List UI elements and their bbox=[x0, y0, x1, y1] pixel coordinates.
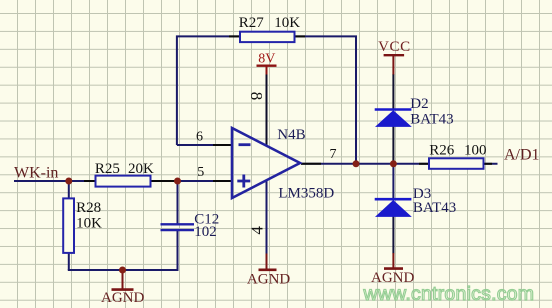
diode D3 cathode bar bbox=[375, 198, 412, 201]
svg-text:8: 8 bbox=[247, 92, 266, 101]
wire feedback loop pin6 to R27 to output bbox=[177, 36, 356, 164]
wire output node to D3 cathode bbox=[392, 164, 394, 198]
pin stub R25 left bbox=[84, 180, 96, 182]
pin stub R25 right bbox=[150, 180, 175, 182]
svg-text:WK-in: WK-in bbox=[14, 165, 58, 182]
power 8V symbol bbox=[257, 66, 277, 75]
ground AGND right symbol (D3) bbox=[384, 253, 403, 269]
wire D2 anode to output node bbox=[392, 127, 394, 165]
pin stub R26 right bbox=[483, 163, 492, 165]
pin 5 stub op-amp bbox=[213, 180, 232, 182]
diode D3 body bbox=[375, 200, 412, 217]
wire C12 branch upper bbox=[177, 181, 179, 225]
svg-text:4: 4 bbox=[247, 226, 266, 235]
svg-text:102: 102 bbox=[194, 224, 217, 240]
svg-text:6: 6 bbox=[196, 129, 203, 144]
power VCC symbol bbox=[384, 55, 405, 74]
svg-text:5: 5 bbox=[197, 165, 204, 180]
pin stub R27 left bbox=[229, 35, 241, 37]
op-amp inverting input minus sign bbox=[239, 143, 251, 146]
junction dot output/diodes bbox=[390, 160, 397, 167]
diode D2 cathode bar bbox=[375, 108, 412, 111]
pin stub R27 right bbox=[294, 35, 305, 37]
svg-text:R25: R25 bbox=[95, 161, 120, 177]
wire input net WK-in to pin 5 bbox=[14, 180, 232, 182]
diode D2 body bbox=[375, 110, 412, 127]
svg-text:VCC: VCC bbox=[378, 39, 411, 55]
svg-text:8V: 8V bbox=[258, 52, 275, 67]
svg-text:A/D1: A/D1 bbox=[504, 147, 540, 164]
svg-text:N4B: N4B bbox=[277, 127, 305, 143]
svg-text:20K: 20K bbox=[128, 161, 154, 177]
op-amp U1 triangle bbox=[232, 128, 300, 198]
svg-text:LM358D: LM358D bbox=[278, 186, 334, 202]
op-amp non-inverting input plus sign bbox=[237, 175, 250, 188]
svg-text:BAT43: BAT43 bbox=[413, 200, 456, 216]
svg-text:D2: D2 bbox=[410, 96, 428, 112]
resistor R25 bbox=[96, 176, 151, 187]
junction dot output/feedback bbox=[353, 160, 360, 167]
resistor R26 bbox=[429, 158, 484, 169]
wire C12 branch lower bbox=[177, 230, 179, 270]
wire bottom AGND run bbox=[68, 269, 179, 271]
svg-text:100: 100 bbox=[464, 143, 487, 159]
wire pin6 horizontal bbox=[177, 144, 232, 146]
pin 4 wire op-amp bottom bbox=[266, 181, 268, 254]
pin 8 wire op-amp top bbox=[266, 74, 268, 146]
svg-text:www.cntronics.com: www.cntronics.com bbox=[363, 283, 535, 305]
wire diode column VCC to D2 bbox=[392, 74, 394, 109]
pin 6 stub op-amp bbox=[213, 144, 232, 146]
wire D3 anode to AGND bbox=[392, 217, 394, 254]
wire R28 branch down bbox=[68, 181, 70, 270]
pin 7 stub op-amp output bbox=[301, 163, 321, 165]
svg-text:7: 7 bbox=[330, 147, 337, 162]
svg-text:10K: 10K bbox=[76, 216, 102, 232]
resistor R27 bbox=[240, 32, 295, 42]
svg-text:BAT43: BAT43 bbox=[410, 112, 453, 128]
junction dot input/C12 bbox=[174, 178, 181, 185]
ground AGND left symbol bbox=[112, 270, 134, 290]
wire output net to A/D1 bbox=[301, 163, 498, 165]
capacitor C12 plates bbox=[161, 224, 195, 230]
svg-text:10K: 10K bbox=[274, 15, 300, 31]
svg-text:R26: R26 bbox=[429, 143, 455, 159]
junction dot bottom AGND bbox=[119, 267, 126, 274]
svg-text:R28: R28 bbox=[76, 200, 101, 216]
ground AGND middle symbol (pin 4) bbox=[259, 254, 277, 270]
resistor R28 bbox=[63, 198, 74, 253]
junction dot input/R28 bbox=[65, 178, 72, 185]
svg-text:AGND: AGND bbox=[101, 290, 144, 306]
svg-text:AGND: AGND bbox=[247, 272, 290, 288]
svg-text:R27: R27 bbox=[239, 15, 265, 31]
pin stub R26 left bbox=[419, 163, 430, 165]
